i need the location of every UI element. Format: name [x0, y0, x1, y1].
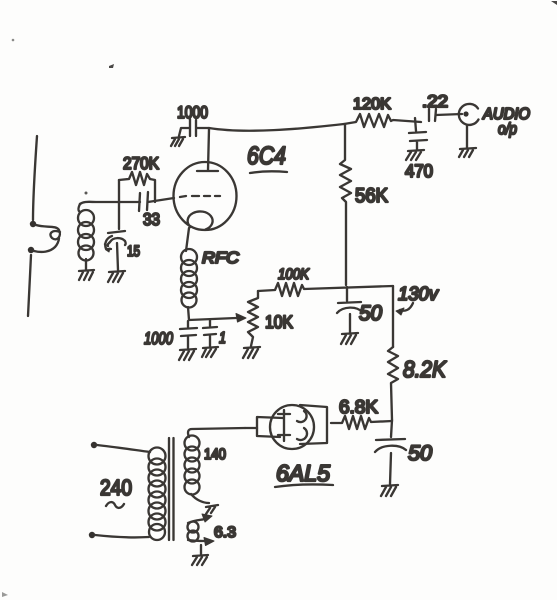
resistor 270K parallel box [119, 172, 155, 202]
wire to trimmer [118, 203, 120, 229]
connector audio output jack [459, 104, 479, 125]
wire cathode return with wiper arrow [188, 307, 236, 320]
inductor RFC [181, 249, 197, 265]
resistor 6.8K [331, 416, 392, 429]
svg-text:RFC: RFC [202, 250, 239, 267]
ground under 1000 bottom [179, 349, 196, 360]
svg-text:15: 15 [127, 243, 140, 260]
wire trimmer bottom stub [117, 243, 118, 270]
capacitor 50 upper [337, 287, 362, 333]
capacitor 1000 top plates [179, 119, 209, 136]
transformer T1 core [169, 438, 174, 540]
tube 6AL5 envelope [270, 405, 314, 449]
svg-text:130v: 130v [398, 284, 439, 305]
resistor 56K [340, 124, 351, 285]
trimmer arrow [105, 236, 112, 249]
ground under jack [459, 148, 476, 157]
transformer T1 primary winding [149, 448, 166, 465]
wire cathode lead [186, 228, 189, 251]
tube 6C4 cathode arc [188, 211, 213, 229]
svg-text:6AL5: 6AL5 [276, 460, 330, 486]
svg-text:140: 140 [204, 446, 226, 463]
ground under heater winding [192, 555, 208, 565]
svg-text:6.8K: 6.8K [339, 396, 379, 417]
capacitor .22 [429, 109, 462, 121]
wire antenna lead lower [28, 255, 31, 316]
capacitor 15 trimmer [108, 231, 126, 246]
node antenna terminal bottom [28, 247, 34, 253]
svg-text:50: 50 [359, 302, 382, 325]
node antenna terminal top [30, 221, 36, 227]
ground under 1000 top [171, 137, 185, 146]
tube 6C4 plate [197, 129, 218, 171]
svg-text:10K: 10K [265, 312, 293, 332]
svg-text:1000: 1000 [177, 103, 208, 122]
wire heater to ground [200, 545, 202, 554]
capacitor 50 lower [375, 439, 406, 484]
inductor L1 primary curl [34, 225, 60, 252]
tube 6AL5 internal cathodes [297, 411, 307, 440]
wire jack to ground [466, 126, 468, 148]
transformer T1 secondary 140 winding [185, 436, 200, 451]
label AC tilde [106, 502, 124, 508]
svg-text:1: 1 [219, 330, 226, 347]
svg-text:240: 240 [100, 475, 132, 500]
wire antenna lead upper [33, 136, 37, 220]
ground under 50 upper [341, 333, 358, 344]
speck marks [12, 39, 15, 42]
wire heater top lead arrow [188, 519, 205, 523]
wire coil bottom stub [85, 259, 87, 270]
capacitor 470 [409, 118, 427, 150]
svg-text:o/p: o/p [498, 121, 517, 138]
wire junction vertical at grid network [118, 180, 120, 203]
wire grid line from coil [80, 202, 140, 204]
wire heater bottom lead arrow [188, 540, 205, 541]
svg-text:.22: .22 [422, 92, 448, 111]
inductor L1 secondary coil [79, 204, 81, 212]
svg-text:120K: 120K [353, 96, 391, 113]
tube 6AL5 internal plates [278, 410, 290, 441]
node primary terminal bottom [89, 532, 95, 538]
resistor 8.2K [388, 347, 398, 420]
svg-text:56K: 56K [355, 185, 389, 207]
tube 6C4 envelope [174, 162, 237, 230]
ground under L1 secondary [79, 270, 94, 280]
tube 6AL5 right base box [300, 405, 327, 444]
ground under 1 [202, 347, 218, 357]
resistor 100K [258, 283, 393, 296]
svg-text:33: 33 [143, 210, 160, 229]
svg-text:50: 50 [408, 442, 432, 465]
wire junction to 50 lower [391, 420, 392, 437]
wire secondary top lead to 6AL5 [188, 428, 245, 437]
resistor 120K [344, 114, 421, 127]
svg-text:6.3: 6.3 [214, 524, 236, 541]
wire 130v rail down [392, 286, 394, 347]
svg-text:270K: 270K [123, 154, 160, 173]
svg-text:1000: 1000 [144, 329, 173, 348]
svg-text:6C4: 6C4 [247, 142, 286, 170]
node primary terminal top [91, 442, 97, 448]
wire plate to output node [209, 124, 344, 131]
arrow 130v pointer [400, 303, 413, 311]
capacitor 33 [139, 192, 174, 211]
resistor 10K potentiometer [248, 291, 258, 346]
wire 6AL5 left lead [245, 427, 257, 429]
ground chassis at 140 bottom [206, 505, 218, 514]
ground under trimmer 15 [108, 271, 125, 282]
label 6C4 underline [250, 171, 287, 173]
ground under 470 [406, 150, 424, 160]
ground under 10K [243, 347, 260, 358]
svg-text:100K: 100K [278, 266, 310, 283]
capacitor 1 [203, 320, 217, 346]
wire primary bottom lead [95, 535, 149, 537]
svg-text:470: 470 [405, 161, 433, 181]
tube 6C4 grid dashes [180, 196, 220, 197]
label 6AL5 underline [275, 484, 333, 487]
capacitor 1000 bottom [180, 321, 197, 348]
wire primary top lead [97, 445, 150, 452]
ground under 50 lower [381, 485, 398, 496]
transformer T1 heater 6.3 winding [188, 522, 199, 533]
svg-text:8.2K: 8.2K [403, 356, 447, 382]
tube 6AL5 left base box [257, 417, 283, 437]
wire secondary bottom lead [191, 494, 209, 503]
